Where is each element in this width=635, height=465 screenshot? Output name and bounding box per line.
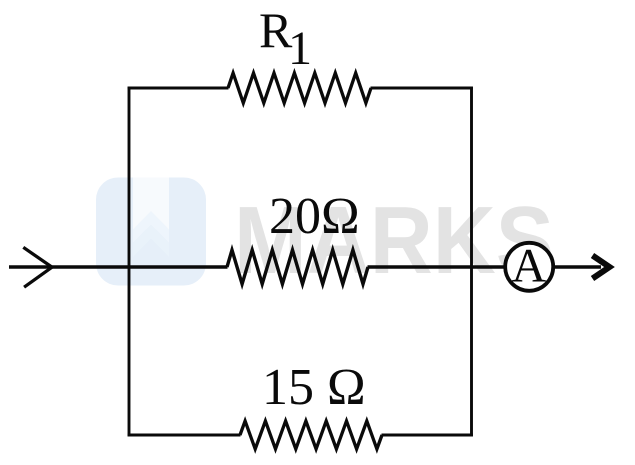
watermark logo rounded square: [96, 178, 206, 286]
wire top lead right: [371, 87, 473, 90]
wire top lead left: [128, 87, 229, 90]
wire left vertical: [128, 87, 131, 437]
wire bottom lead left: [128, 434, 241, 437]
wire middle to ammeter: [368, 265, 507, 268]
wire bottom lead right: [382, 434, 473, 437]
svg-text:20Ω: 20Ω: [269, 188, 360, 245]
wire right vertical: [470, 87, 473, 437]
resistor 20ohm zigzag: [227, 250, 368, 284]
wire ammeter to output: [553, 265, 601, 268]
ammeter U1 circle: [505, 243, 553, 291]
output arrow chevron: [593, 256, 610, 279]
svg-text:A: A: [512, 240, 547, 293]
svg-text:15 Ω: 15 Ω: [262, 359, 366, 416]
wire middle input segment: [9, 265, 228, 268]
resistor R1 zigzag: [228, 73, 371, 103]
resistor 15ohm zigzag: [240, 421, 382, 449]
input arrow chevron: [23, 247, 52, 287]
svg-text:1: 1: [288, 22, 312, 75]
